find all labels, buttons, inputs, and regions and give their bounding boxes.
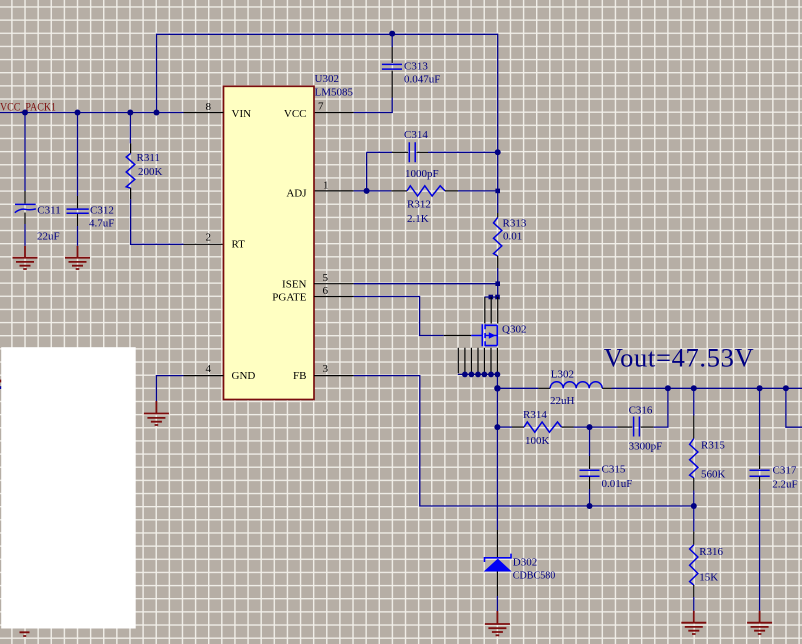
svg-text:7: 7 [318, 101, 324, 113]
svg-text:U302: U302 [315, 73, 339, 85]
svg-text:0.047uF: 0.047uF [404, 74, 440, 86]
ground under C312 [65, 246, 90, 269]
IC U302 LM5085 body [224, 86, 315, 399]
wire C315 bottom to feedback rail [589, 489, 591, 506]
svg-text:C316: C316 [629, 405, 653, 417]
junction source pin 2 [462, 372, 468, 378]
junction R315 top [691, 385, 697, 391]
capacitor C311 [15, 191, 36, 224]
svg-text:R313: R313 [503, 218, 527, 230]
wire C313 bottom to VCC pin [354, 98, 393, 113]
junction source pin 7 [495, 372, 501, 378]
junction ISEN column [495, 281, 500, 286]
transistor Q302 source pins [458, 348, 497, 373]
wire C312 bottom to ground [77, 226, 79, 246]
svg-text:6: 6 [323, 285, 329, 297]
svg-text:15K: 15K [699, 572, 718, 584]
pin 6 PGATE lead [314, 296, 354, 298]
svg-text:GND: GND [232, 370, 256, 382]
svg-text:5: 5 [323, 272, 329, 284]
wire switch node to L302 [497, 387, 538, 389]
svg-text:C315: C315 [602, 464, 626, 476]
wire C311 bottom to ground [24, 224, 26, 246]
wire R312 right to R313 top [458, 190, 498, 192]
svg-text:ISEN: ISEN [282, 278, 307, 290]
wire R316 bottom to ground [693, 597, 695, 611]
svg-text:R315: R315 [701, 440, 725, 452]
svg-text:VIN: VIN [232, 108, 252, 120]
wire C314 right to R313 column [428, 151, 498, 153]
svg-text:RT: RT [232, 239, 246, 251]
capacitor C317 [750, 455, 770, 489]
clipped ground below white box [20, 632, 30, 636]
svg-text:R314: R314 [523, 409, 547, 421]
svg-text:CDBC580: CDBC580 [513, 570, 556, 582]
junction C311 tap [22, 110, 28, 116]
junction top loop tap [154, 110, 160, 116]
wire Vout rail down to R315 [693, 388, 695, 415]
transistor Q302 MOSFET symbol [471, 324, 497, 346]
capacitor C314 [392, 142, 428, 162]
svg-text:FB: FB [293, 370, 306, 382]
svg-text:Vout=47.53V: Vout=47.53V [604, 342, 754, 372]
junction right branch [783, 385, 789, 391]
junction source pin 4 [475, 372, 481, 378]
transistor Q302 drain pins [485, 297, 498, 324]
svg-text:0.01uF: 0.01uF [602, 478, 633, 490]
wire rail to C311 [24, 113, 26, 192]
junction source pin 3 [469, 372, 475, 378]
wire feedback rail down to R316 [693, 506, 695, 531]
junction Q302 drain b [495, 295, 500, 300]
svg-text:2: 2 [206, 232, 212, 244]
svg-text:3300pF: 3300pF [629, 441, 663, 453]
svg-text:C317: C317 [773, 465, 797, 477]
svg-text:8: 8 [206, 101, 212, 113]
wire Q302 drain tie [485, 296, 498, 298]
clipped red mark at left edge [0, 380, 1, 383]
svg-text:Q302: Q302 [502, 324, 526, 336]
junction Q302 drain a [489, 295, 494, 300]
junction source pin 5 [482, 372, 488, 378]
wire switch column to R314 [497, 426, 512, 428]
pin 2 RT lead [184, 243, 224, 245]
inductor L302 [538, 382, 611, 389]
svg-text:LM5085: LM5085 [315, 87, 354, 99]
capacitor C315 [580, 456, 600, 489]
svg-text:2.1K: 2.1K [407, 213, 429, 225]
ground under R316 [681, 611, 706, 634]
wire D302 anode to ground [496, 596, 498, 611]
svg-text:R311: R311 [137, 152, 160, 164]
pin 1 ADJ lead [314, 190, 354, 192]
wire VIN rail to R311 [129, 113, 131, 144]
pin 7 VCC lead [314, 112, 354, 114]
svg-text:3: 3 [323, 363, 329, 375]
svg-text:L302: L302 [551, 369, 574, 381]
svg-text:D302: D302 [513, 557, 537, 569]
svg-text:VCC: VCC [284, 108, 307, 120]
wire top loop from VIN junction to R313 column [157, 34, 498, 213]
svg-text:R316: R316 [699, 546, 723, 558]
wire switch node down to D302 [496, 388, 498, 530]
resistor R313 [494, 213, 502, 268]
ground under C317 [747, 611, 772, 634]
ground under C311 [13, 246, 38, 269]
junction switch node [494, 385, 500, 391]
wire Vout rail down to C317 [759, 388, 761, 455]
svg-text:0.01: 0.01 [503, 231, 522, 243]
junction source pin 6 [488, 372, 494, 378]
ground at chip GND [144, 401, 169, 425]
junction R314/C315 [587, 424, 593, 430]
wire C317 bottom to ground [759, 489, 761, 611]
junction R311 tap [127, 110, 133, 116]
junction C317 top [757, 385, 763, 391]
transistor Q302 gate pin lead [444, 335, 472, 337]
wire R314 node down to C315 [589, 427, 591, 456]
svg-text:1: 1 [323, 179, 329, 191]
wire VCC_PACK1 rail [0, 112, 184, 114]
wire PGATE to Q302 gate [354, 297, 444, 336]
wire FB to bottom feedback rail [354, 376, 694, 506]
pin 5 ISEN lead [314, 283, 354, 285]
wire R314 to C316 [574, 426, 618, 428]
svg-text:R312: R312 [407, 199, 431, 211]
svg-text:C311: C311 [37, 205, 60, 217]
svg-text:200K: 200K [138, 166, 163, 178]
junction C314 right [495, 149, 501, 155]
wire R313 bottom to Q302 drain [497, 268, 499, 297]
junction ADJ left [364, 188, 370, 194]
svg-text:C314: C314 [404, 129, 428, 141]
white overlay rectangle [1, 347, 136, 628]
capacitor C313 [382, 34, 402, 97]
wire right branch exit [786, 388, 802, 427]
svg-text:4: 4 [206, 363, 212, 375]
junction C312 tap [75, 110, 81, 116]
wire rail to C312 [77, 113, 79, 197]
svg-text:22uH: 22uH [550, 395, 575, 407]
wire R315 bottom to feedback rail [693, 491, 695, 507]
capacitor C312 [67, 196, 89, 226]
junction ADJ right / R313 top [495, 189, 500, 194]
clipped blue wire mark at left edge [0, 386, 1, 389]
svg-text:22uF: 22uF [37, 231, 60, 243]
resistor R315 [690, 416, 698, 491]
svg-text:2.2uF: 2.2uF [772, 479, 797, 491]
resistor R311 [126, 143, 135, 199]
junction C313 tap [389, 31, 395, 37]
wire ADJ row [354, 190, 392, 192]
svg-text:C313: C313 [404, 61, 428, 73]
wire Q302 source rail [458, 374, 498, 388]
junction C316 top [665, 385, 671, 391]
svg-text:VCC_PACK1: VCC_PACK1 [0, 102, 56, 114]
pin 4 GND lead [184, 375, 224, 377]
svg-text:560K: 560K [701, 469, 726, 481]
svg-text:PGATE: PGATE [272, 292, 307, 304]
pin 3 FB lead [314, 375, 354, 377]
wire ISEN row [354, 283, 498, 285]
capacitor C316 [618, 417, 654, 437]
resistor R312 [391, 186, 458, 196]
ground under D302 [485, 611, 510, 635]
svg-text:1000pF: 1000pF [405, 168, 439, 180]
diode D302 [484, 530, 512, 596]
svg-text:100K: 100K [525, 435, 550, 447]
resistor R316 [690, 531, 698, 597]
wire C316 right up to Vout rail [654, 388, 668, 427]
wire Vout rail [612, 387, 802, 389]
junction R315/R316 [691, 503, 697, 509]
wire GND pin to ground [156, 376, 183, 401]
svg-text:4.7uF: 4.7uF [89, 218, 114, 230]
wire R311 bottom to RT pin [131, 199, 184, 244]
pin 8 VIN lead [184, 112, 224, 114]
resistor R314 [512, 422, 574, 432]
svg-text:ADJ: ADJ [286, 187, 307, 199]
svg-text:C312: C312 [90, 205, 114, 217]
junction R314 left [494, 424, 500, 430]
junction C315 bottom [587, 503, 593, 509]
wire ADJ junction to C314 [367, 152, 392, 191]
